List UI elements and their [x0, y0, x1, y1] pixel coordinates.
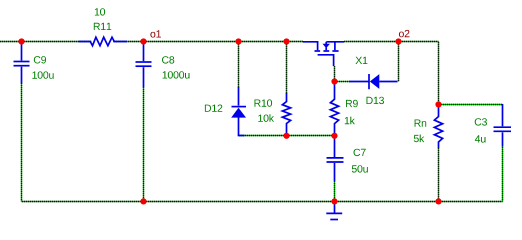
junction C9 top [18, 38, 24, 44]
wire C3 column [502, 147, 504, 202]
label R11 value 10 [95, 8, 105, 15]
junction R10 bottom [283, 133, 289, 139]
label C9 [34, 56, 46, 63]
junction o2 [395, 38, 401, 44]
junction C8 bottom [140, 198, 146, 204]
resistor Rn [434, 107, 442, 148]
wire right column lower [438, 148, 440, 202]
wire to C3 [439, 104, 503, 106]
label R9 value 1k [345, 117, 355, 125]
wire gate to R9 [334, 66, 336, 84]
transistor X1 MOSFET [303, 42, 344, 66]
capacitor C8 [136, 44, 152, 87]
wire top bus right [344, 41, 439, 43]
label R10 [255, 99, 273, 106]
label Rn value 5k [414, 135, 425, 143]
node o1 label [150, 30, 161, 37]
capacitor C3 [494, 104, 512, 147]
wire C7 column [334, 181, 336, 202]
label C7 [354, 149, 366, 156]
label C8 value 1000u [163, 71, 190, 78]
wire C8 branch [143, 87, 145, 202]
junction Rn bottom [435, 198, 441, 204]
diode D12 (zener) [231, 87, 246, 136]
label R11 [94, 23, 111, 30]
label Rn [415, 120, 427, 127]
label C9 value 100u [32, 71, 53, 78]
junction R10 top [283, 38, 289, 44]
diode D13 [349, 74, 398, 89]
label X1 [356, 57, 368, 64]
capacitor C7 [327, 138, 344, 181]
node o2 label [399, 30, 410, 37]
wire mid horizontal [239, 135, 335, 137]
resistor R11 [79, 37, 128, 46]
label C8 [162, 56, 174, 63]
junction Rn top [435, 101, 441, 107]
resistor R10 [282, 93, 290, 134]
junction D12 top [235, 38, 241, 44]
wire R10 branch [286, 44, 288, 94]
junction ground [331, 198, 337, 204]
wire D12 branch [238, 44, 240, 88]
wire o2 drop [398, 42, 400, 82]
label C7 value 50u [352, 165, 368, 172]
wire right column upper [438, 42, 440, 108]
label D12 [205, 105, 222, 112]
label C3 value 4u [475, 135, 486, 142]
wire bottom bus [22, 201, 503, 203]
junction gate-D13 [331, 78, 337, 84]
wire C9 branch [21, 83, 23, 202]
label C3 [475, 118, 487, 125]
wire top bus left [0, 41, 303, 43]
wire C8 branch top [143, 42, 145, 45]
wire D13 row [335, 81, 350, 83]
label R9 [346, 100, 358, 107]
wire C9 branch top [21, 42, 23, 45]
junction o1 [140, 38, 146, 44]
label D13 [367, 97, 385, 104]
ground [326, 203, 342, 220]
capacitor C9 [14, 44, 30, 84]
resistor R9 [330, 84, 338, 134]
label R10 value 10k [258, 114, 274, 122]
junction R9-C7 [331, 133, 337, 139]
